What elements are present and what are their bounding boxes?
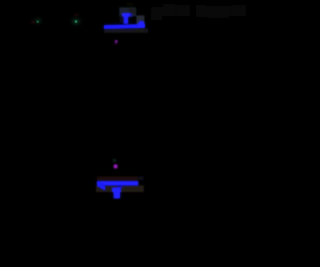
dark sides around stem xyxy=(120,16,124,23)
dark olive band below bottom bar xyxy=(96,185,144,192)
dim blue connector bar-to-stem xyxy=(118,185,123,188)
green LED core right xyxy=(74,20,78,24)
green LED core left xyxy=(36,20,39,23)
T glyph stem xyxy=(124,13,128,23)
faint olive hint above top panel xyxy=(127,3,134,7)
dark strip under top bar xyxy=(104,28,148,33)
purple LED glow (lower) xyxy=(111,162,120,171)
green LED glow halo left xyxy=(30,15,46,28)
dark red patch above right green LED xyxy=(72,12,81,19)
faint green tinge above lower purple LED xyxy=(113,159,117,163)
dark navy patch top-right of bottom bar xyxy=(139,176,144,180)
maroon tinge left of green LED xyxy=(29,19,38,26)
blue display: right hump xyxy=(137,21,144,27)
faint background objects top strip xyxy=(151,4,246,20)
dark olive patch under right hump xyxy=(135,28,145,31)
bottom stem wide top xyxy=(112,188,121,199)
olive tint right edge of panel xyxy=(129,8,136,14)
green LED glow halo right xyxy=(68,15,85,29)
bottom display glow halo xyxy=(97,181,138,198)
dark navy panel behind top display glyph xyxy=(119,7,136,16)
blue display glow halo xyxy=(104,13,145,28)
gray panel right of top display xyxy=(136,15,144,26)
bottom blue bar xyxy=(97,181,138,185)
purple LED glow (upper) xyxy=(112,38,119,46)
faint maroon strip above bottom bar xyxy=(97,176,139,181)
blue display: long horizontal bar (slight rise to right) xyxy=(104,24,145,29)
bottom bar left wedge xyxy=(97,181,105,190)
blue display: T glyph horizontal xyxy=(122,13,131,23)
